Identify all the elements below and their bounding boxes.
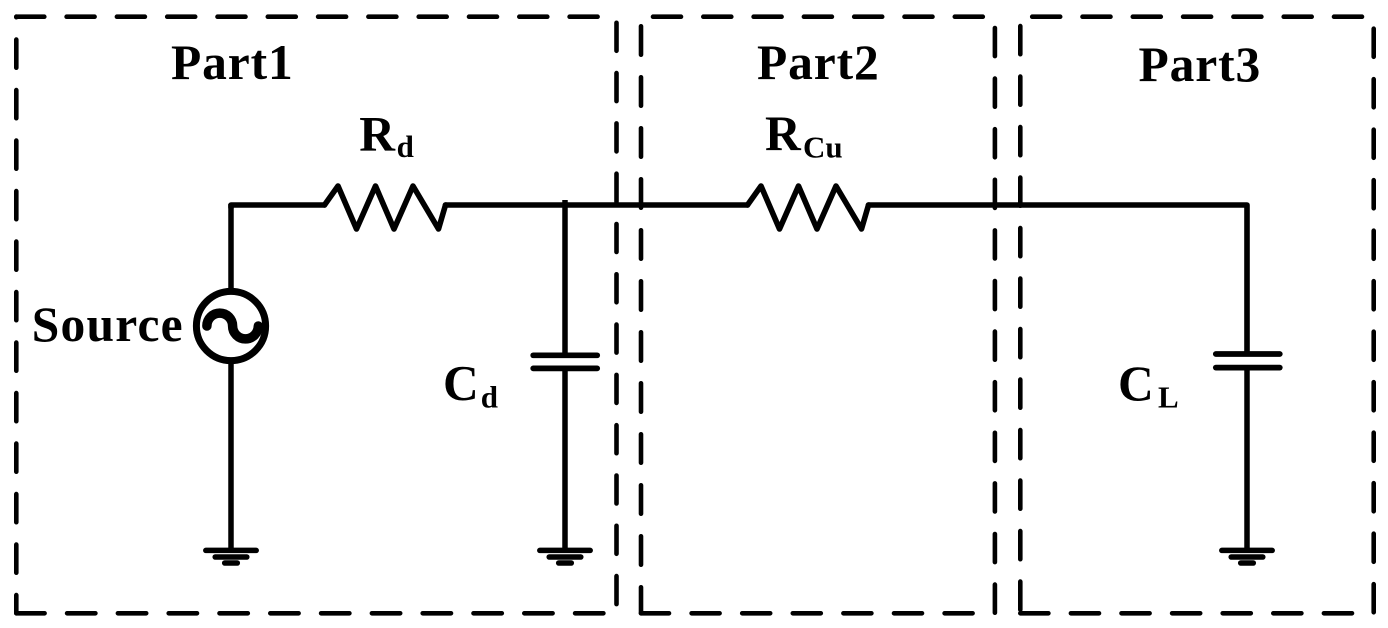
resistor Rd (zigzag): [325, 186, 446, 229]
svg-text:d: d: [481, 379, 498, 414]
ground GND1 under source: [206, 550, 256, 563]
svg-text:Cu: Cu: [803, 130, 843, 165]
svg-text:Part3: Part3: [1139, 37, 1262, 92]
wire: Cd top stem: [562, 200, 568, 355]
capacitor C1 Cd plates: [533, 355, 597, 368]
svg-text:Part1: Part1: [171, 35, 294, 90]
svg-text:Part2: Part2: [757, 35, 880, 90]
wire: source top stem: [228, 204, 234, 290]
svg-text:R: R: [765, 106, 802, 161]
capacitor C2 CL plates: [1216, 354, 1280, 368]
AC source V1 sine wave: [207, 313, 258, 339]
ground GND3 under CL: [1222, 550, 1272, 563]
svg-text:L: L: [1158, 380, 1179, 415]
Part2 dashed box: [641, 17, 995, 614]
svg-text:C: C: [1118, 356, 1154, 411]
wire: source bottom stem: [228, 362, 234, 550]
svg-text:d: d: [397, 129, 414, 164]
wire: source top corner to Rd left terminal: [231, 205, 325, 208]
Part1 dashed box: [16, 17, 616, 614]
wire: Cd bottom stem: [562, 368, 568, 550]
svg-text:C: C: [443, 356, 479, 411]
svg-text:Source: Source: [32, 297, 184, 352]
Part3 dashed box: [1020, 17, 1373, 614]
AC source V1 circle: [196, 291, 265, 360]
resistor RCu (zigzag): [748, 186, 869, 229]
wire: CL bottom stem: [1244, 368, 1250, 551]
wire: RCu right terminal to CL top corner: [869, 205, 1248, 354]
wire: Rd right terminal to RCu left terminal (through node of Cd): [446, 202, 748, 208]
svg-text:R: R: [359, 106, 396, 161]
ground GND2 under Cd: [540, 550, 590, 563]
